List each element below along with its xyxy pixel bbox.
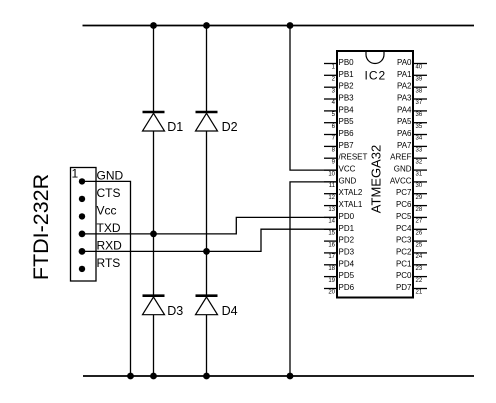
connector J1 pin 3 Vcc (79, 203, 117, 219)
IC2 pin 13 XTAL1 (324, 200, 363, 213)
connector J1 pin 6 RTS (79, 256, 120, 272)
svg-text:PA0: PA0 (397, 58, 412, 67)
svg-text:33: 33 (416, 148, 423, 154)
wire GND: connector pin1 to bottom rail (82, 181, 131, 376)
wire D2 column: top rail to D2, D2 to RXD node, down to D4 (206, 26, 208, 113)
wire VCC: top rail to IC2 pin 10 (290, 26, 336, 171)
IC2 pin 1 PB0 (324, 58, 354, 71)
connector J1 pin 1 GND (79, 168, 124, 184)
IC2 pin 9 /RESET (324, 153, 368, 166)
svg-text:24: 24 (416, 254, 423, 260)
svg-text:RXD: RXD (97, 238, 123, 252)
svg-text:25: 25 (416, 242, 423, 248)
svg-text:GND: GND (339, 176, 357, 185)
IC2 pin 18 PD4 (324, 259, 355, 272)
IC2 pin 5 PB4 (324, 105, 354, 118)
svg-text:PB0: PB0 (339, 58, 355, 67)
svg-text:D1: D1 (167, 120, 183, 134)
junction bottom rail / D4 line (203, 373, 210, 380)
svg-text:PB5: PB5 (339, 117, 355, 126)
IC2 pin 38 PA2 (397, 82, 427, 95)
svg-text:/RESET: /RESET (339, 153, 368, 162)
IC2 pin 28 PC6 (396, 200, 427, 213)
IC2 pin 24 PC2 (396, 247, 427, 260)
junction RXD / D2 line (203, 248, 210, 255)
IC2 pin 32 AREF (390, 153, 427, 166)
IC2 pin 39 PA1 (397, 70, 427, 83)
IC2 pin 36 PA4 (397, 105, 427, 118)
svg-text:GND: GND (97, 168, 124, 182)
svg-text:PD3: PD3 (339, 247, 355, 256)
IC2 pin 23 PC1 (396, 259, 427, 272)
svg-text:PB1: PB1 (339, 70, 355, 79)
diode D2 (196, 112, 238, 134)
svg-text:32: 32 (416, 159, 423, 165)
IC2 pin 21 PD7 (396, 283, 427, 296)
svg-text:PA4: PA4 (397, 105, 412, 114)
IC2 pin 30 AVCC (390, 176, 427, 189)
svg-text:PD5: PD5 (339, 271, 355, 280)
IC2 pin 6 PB5 (324, 117, 354, 130)
svg-text:PA2: PA2 (397, 82, 412, 91)
svg-text:PB3: PB3 (339, 94, 355, 103)
svg-text:40: 40 (416, 65, 423, 71)
IC2 orientation notch (366, 52, 384, 64)
svg-text:Vcc: Vcc (97, 203, 117, 217)
svg-text:14: 14 (328, 219, 335, 225)
svg-text:35: 35 (416, 124, 423, 130)
svg-text:16: 16 (328, 242, 335, 248)
svg-text:PA6: PA6 (397, 129, 412, 138)
svg-text:PD4: PD4 (339, 259, 355, 268)
svg-text:PC2: PC2 (396, 247, 412, 256)
svg-text:XTAL1: XTAL1 (339, 200, 363, 209)
svg-text:ATMEGA32: ATMEGA32 (368, 145, 383, 213)
wire bottom rail (83, 375, 474, 377)
svg-text:15: 15 (328, 231, 335, 237)
svg-text:GND: GND (394, 165, 412, 174)
svg-text:PC5: PC5 (396, 212, 412, 221)
svg-text:PD7: PD7 (396, 283, 412, 292)
IC2 pin 22 PC0 (396, 271, 427, 284)
svg-text:12: 12 (328, 195, 335, 201)
svg-text:PA5: PA5 (397, 117, 412, 126)
svg-text:13: 13 (328, 207, 335, 213)
junction bottom rail / GND line (127, 373, 134, 380)
svg-text:11: 11 (329, 183, 336, 189)
wire TXD: connector pin4 to D1 node and IC2 PD0 (pin 14) (82, 217, 336, 234)
IC2 pin 20 PD6 (324, 283, 355, 296)
svg-text:PB2: PB2 (339, 82, 355, 91)
IC U2 ATMEGA32 body (337, 51, 413, 298)
IC2 pin 10 VCC (324, 165, 356, 178)
svg-text:AVCC: AVCC (390, 176, 412, 185)
IC2 pin 25 PC3 (396, 236, 427, 249)
junction bottom rail / D3 line (150, 373, 157, 380)
wire GND: IC2 pin 11 to bottom rail (290, 182, 336, 376)
diode D3 (143, 296, 184, 318)
IC2 pin 3 PB2 (324, 82, 354, 95)
svg-text:IC2: IC2 (365, 69, 387, 83)
svg-text:PB4: PB4 (339, 105, 355, 114)
IC2 pin 16 PD2 (324, 236, 355, 249)
svg-text:PB7: PB7 (339, 141, 355, 150)
junction top rail / D1 line (150, 22, 157, 29)
svg-text:FTDI-232R: FTDI-232R (29, 174, 53, 280)
svg-text:27: 27 (416, 219, 423, 225)
svg-text:22: 22 (416, 278, 423, 284)
IC2 pin 34 PA6 (397, 129, 427, 142)
wire D4 column: D4 to bottom rail (206, 314, 208, 376)
svg-text:PD1: PD1 (339, 224, 355, 233)
svg-text:PA7: PA7 (397, 141, 412, 150)
svg-text:D4: D4 (222, 304, 238, 318)
svg-text:19: 19 (328, 278, 335, 284)
diode D4 (196, 296, 238, 318)
svg-text:PC3: PC3 (396, 236, 412, 245)
svg-text:21: 21 (416, 290, 423, 296)
svg-text:31: 31 (416, 171, 423, 177)
junction TXD / D1 line (150, 231, 157, 238)
IC2 pin 11 GND (324, 176, 357, 189)
svg-text:17: 17 (328, 254, 335, 260)
IC2 pin 17 PD3 (324, 247, 355, 260)
svg-text:30: 30 (416, 183, 423, 189)
wire RXD: connector pin5 to D2 node and IC2 PD1 (pin 15) (82, 229, 336, 251)
connector J1 pin 5 RXD (79, 238, 123, 254)
wire top rail (83, 25, 475, 27)
svg-text:38: 38 (416, 88, 423, 94)
svg-text:29: 29 (416, 195, 423, 201)
svg-text:VCC: VCC (339, 165, 356, 174)
svg-text:28: 28 (416, 207, 423, 213)
svg-text:CTS: CTS (97, 186, 121, 200)
IC2 pin 15 PD1 (324, 224, 355, 237)
connector J1 pin 2 CTS (79, 186, 121, 202)
IC2 pin 35 PA5 (397, 117, 427, 130)
junction top rail / D2 line (203, 22, 210, 29)
IC2 pin 4 PB3 (324, 94, 354, 107)
svg-text:PD2: PD2 (339, 236, 355, 245)
junction top rail / VCC line (287, 22, 294, 29)
IC2 pin 40 PA0 (397, 58, 427, 71)
svg-text:TXD: TXD (97, 221, 121, 235)
IC2 pin 29 PC7 (396, 188, 427, 201)
IC2 pin 19 PD5 (324, 271, 355, 284)
svg-text:37: 37 (416, 100, 423, 106)
svg-text:PB6: PB6 (339, 129, 355, 138)
svg-text:PA3: PA3 (397, 94, 412, 103)
svg-text:XTAL2: XTAL2 (339, 188, 363, 197)
svg-text:26: 26 (416, 231, 423, 237)
svg-text:PC7: PC7 (396, 188, 412, 197)
IC2 pin 12 XTAL2 (324, 188, 363, 201)
IC2 pin 14 PD0 (324, 212, 355, 225)
svg-text:PD6: PD6 (339, 283, 355, 292)
IC2 pin 27 PC5 (396, 212, 427, 225)
svg-text:RTS: RTS (97, 256, 121, 270)
IC2 pin 37 PA3 (397, 94, 427, 107)
svg-text:PC6: PC6 (396, 200, 412, 209)
svg-text:D2: D2 (222, 120, 238, 134)
svg-text:39: 39 (416, 77, 423, 83)
svg-text:D3: D3 (167, 304, 183, 318)
svg-text:36: 36 (416, 112, 423, 118)
junction bottom rail / GND11 line (287, 373, 294, 380)
svg-text:20: 20 (328, 290, 335, 296)
IC2 pin 8 PB7 (324, 141, 354, 154)
connector J1 pin 4 TXD (79, 221, 121, 237)
connector J1 FTDI-232R body (71, 168, 97, 282)
diode D1 (143, 112, 184, 134)
svg-text:10: 10 (328, 171, 335, 177)
svg-text:PD0: PD0 (339, 212, 355, 221)
svg-text:PC0: PC0 (396, 271, 412, 280)
svg-text:23: 23 (416, 266, 423, 272)
svg-text:PC1: PC1 (396, 259, 412, 268)
IC2 pin 33 PA7 (397, 141, 427, 154)
svg-text:34: 34 (416, 136, 423, 142)
IC2 pin 31 GND (394, 165, 427, 178)
svg-text:PC4: PC4 (396, 224, 412, 233)
svg-text:1: 1 (72, 167, 79, 181)
svg-text:AREF: AREF (390, 153, 411, 162)
svg-text:PA1: PA1 (397, 70, 412, 79)
IC2 pin 26 PC4 (396, 224, 427, 237)
wire D3 column: D3 to bottom rail (153, 314, 155, 376)
IC2 pin 2 PB1 (324, 70, 354, 83)
IC2 pin 7 PB6 (324, 129, 354, 142)
wire D1 anode column: top rail to D1, D1 to TXD node, down to D3 (153, 26, 155, 113)
svg-text:18: 18 (328, 266, 335, 272)
